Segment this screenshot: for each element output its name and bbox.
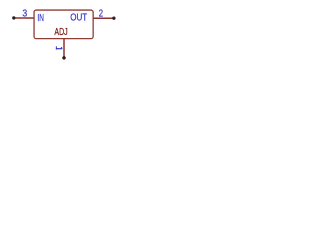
- svg-text:2: 2: [99, 8, 103, 19]
- regulator U1 body: [34, 10, 93, 39]
- node pin 1 end dot: [62, 56, 66, 60]
- wire pin 3 (left, IN): [14, 17, 34, 19]
- wire pin 2 (right, OUT): [93, 17, 113, 19]
- wire pin 1 (bottom, ADJ): [63, 39, 65, 58]
- node pin 3 end dot: [12, 16, 15, 19]
- svg-text:IN: IN: [37, 13, 44, 24]
- node pin 2 end dot: [112, 17, 115, 20]
- pin number 1 (rotated digit): [56, 46, 62, 49]
- svg-text:3: 3: [22, 8, 27, 19]
- svg-text:ADJ: ADJ: [54, 27, 67, 38]
- svg-text:OUT: OUT: [70, 13, 87, 24]
